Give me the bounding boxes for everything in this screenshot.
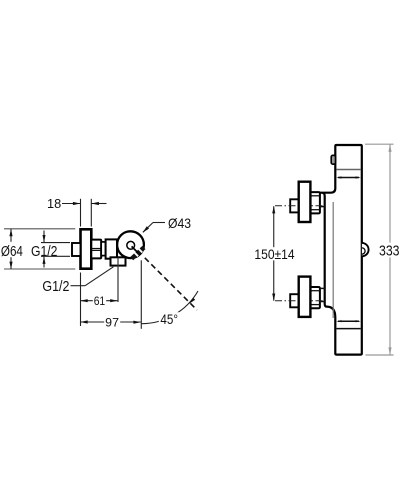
nut facet lines	[92, 248, 102, 250]
svg-text:G1/2: G1/2	[31, 243, 57, 260]
dashed 45° axis line	[145, 258, 197, 310]
dimension 97 line+arrows	[80, 321, 141, 323]
svg-text:18: 18	[47, 197, 61, 211]
bar top section line gray	[336, 169, 360, 171]
inlet nut facet lines cy=300.7	[311, 290, 320, 292]
svg-text:G1/2: G1/2	[42, 278, 69, 295]
svg-text:61: 61	[94, 294, 106, 308]
wire extension line 333 top	[365, 143, 394, 145]
inlet pipe stub cy=205.8	[290, 199, 299, 212]
dimension Ø64 line+arrows	[10, 229, 12, 269]
inlet nut cy=205.8	[310, 192, 320, 213]
tab on bar left edge	[331, 155, 335, 164]
bar bottom section line	[336, 328, 360, 330]
wire extension line G1/2 top	[41, 242, 70, 244]
knob circle Ø43	[117, 231, 144, 258]
angle arc 45°	[141, 291, 198, 324]
outlet port mid line / extension to dim 61	[117, 258, 119, 303]
svg-text:45°: 45°	[160, 312, 178, 327]
dimension G1/2 upper arrows	[43, 231, 45, 243]
dimension 333 line+arrows	[389, 144, 391, 354]
knob indicator line at 45°	[132, 246, 139, 253]
bottom inlet boss top line	[320, 287, 325, 289]
inlet boss line cy=300.7	[320, 301, 325, 303]
inlet nut facet lines cy=205.8	[311, 195, 320, 197]
svg-text:97: 97	[105, 315, 119, 329]
label 333	[378, 243, 400, 258]
inlet nut cy=300.7	[310, 287, 320, 308]
leader line G1/2 lower	[71, 285, 86, 287]
centerline (dash-dot) cy=300.7	[275, 300, 323, 302]
leader line Ø43 with arrow	[143, 223, 153, 233]
flange (wall escutcheon, side view)	[81, 229, 92, 268]
label Ø64	[0, 242, 25, 257]
wire extension line 18 right	[90, 199, 92, 227]
wire extension line from spout down (x=141.3)	[140, 260, 142, 329]
valve body block	[106, 239, 117, 258]
label 97	[104, 317, 120, 328]
bar line with outward arrows y=321.2	[338, 320, 359, 322]
svg-text:Ø64: Ø64	[1, 243, 23, 260]
centerline (dash-dot) cy=205.8	[275, 205, 323, 207]
angle arc arrowhead	[189, 298, 195, 304]
wire extension line G1/2 bottom	[41, 255, 70, 257]
wire extension line Ø64 top	[4, 228, 75, 230]
wire extension line 333 bottom	[366, 354, 394, 356]
dimension 61 line+arrows	[80, 300, 117, 302]
label 45°	[159, 312, 179, 325]
wire extension line x=80.5 below flange	[80, 273, 82, 327]
label 150±14	[253, 247, 296, 260]
svg-text:150±14: 150±14	[254, 246, 294, 262]
valve neck	[101, 242, 105, 256]
inlet flange (front view) cy=205.8	[299, 182, 311, 222]
inlet pipe stub cy=300.7	[290, 294, 299, 307]
inlet boss line cy=205.8	[320, 206, 325, 208]
knob inner circle	[127, 241, 135, 249]
bar left edge thin inner line	[332, 202, 334, 318]
dimension 18 line+arrows	[62, 203, 80, 205]
svg-text:Ø43: Ø43	[168, 215, 191, 231]
dimension 150±14 line+arrows	[273, 206, 275, 301]
outlet port under body	[111, 257, 126, 265]
inlet pipe stub G1/2	[72, 243, 81, 256]
spout cut hatched band at 45°	[130, 246, 145, 260]
nut on valve body	[91, 240, 101, 259]
wire extension line Ø64 bottom	[4, 268, 75, 270]
bar line with outward arrows y=177.5	[338, 177, 359, 179]
inlet flange (front view) cy=300.7	[299, 277, 311, 317]
temperature stop bump on right edge	[362, 243, 369, 256]
label 61	[93, 295, 106, 306]
main bar body outline	[320, 145, 362, 355]
wire extension line 18 left	[80, 199, 82, 227]
svg-text:333: 333	[379, 244, 400, 260]
